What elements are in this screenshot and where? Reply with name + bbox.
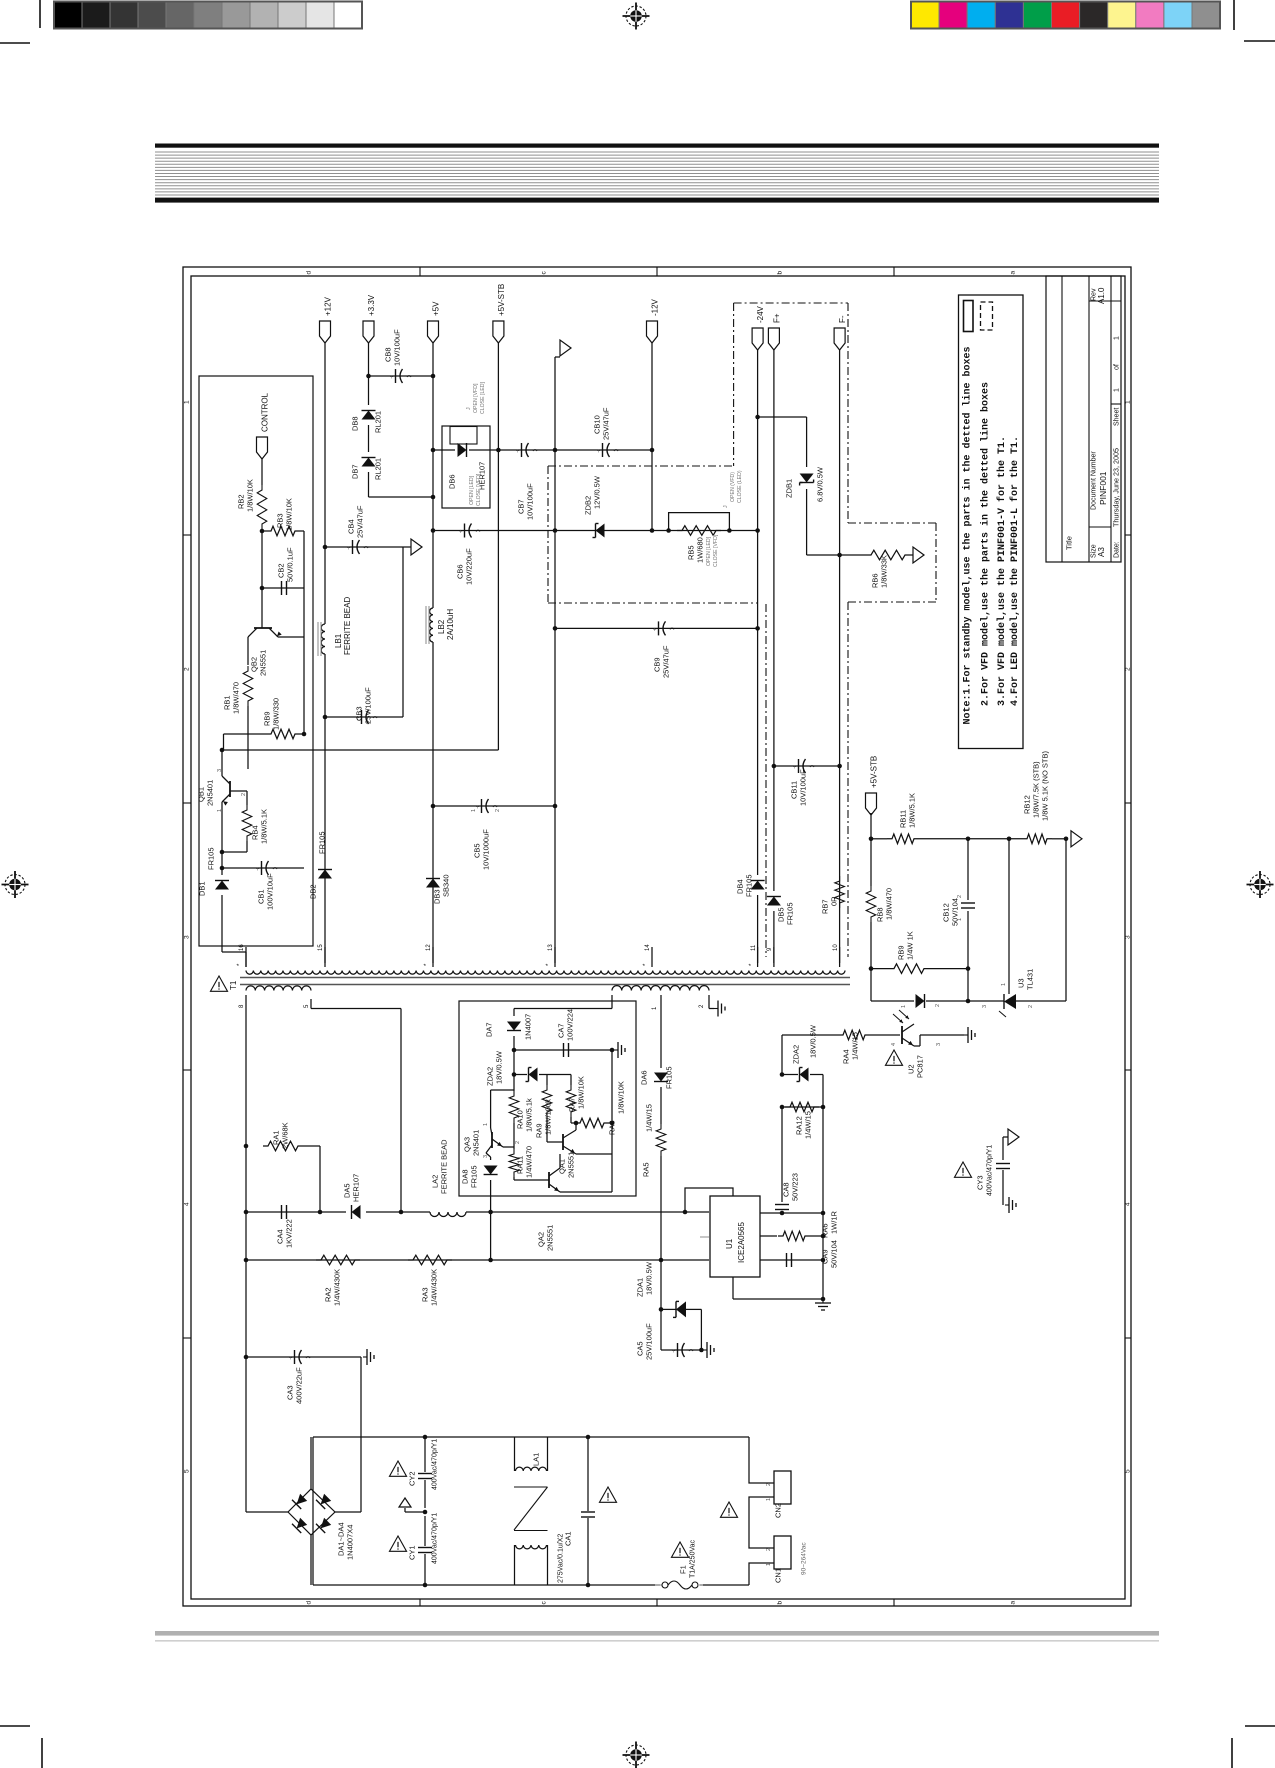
- svg-text:2: 2: [766, 1548, 772, 1551]
- svg-text:F-: F-: [838, 315, 847, 323]
- svg-text:RA7: RA7: [568, 1097, 577, 1112]
- svg-text:+: +: [597, 449, 601, 455]
- zener ZDB2 12V/0.5W: [596, 524, 605, 538]
- svg-text:ZDB1: ZDB1: [785, 479, 794, 498]
- resistor RB11 1/8W/5.1K: [874, 838, 887, 840]
- svg-text:ZDA2: ZDA2: [792, 1045, 801, 1064]
- svg-text:25V/47uF: 25V/47uF: [662, 645, 671, 678]
- capacitor CB2 50V/0.1uF: [262, 587, 304, 589]
- svg-text:1: 1: [471, 809, 477, 812]
- capacitor CB1 100V/10uF: [222, 867, 304, 869]
- svg-text:100V/224: 100V/224: [566, 1009, 575, 1041]
- diode DB3 SB340: [426, 879, 440, 888]
- fuse F1 T1A/250Vac: [655, 1584, 662, 1586]
- svg-text:1/8W/330: 1/8W/330: [272, 698, 281, 730]
- wire +3.3V rail: [368, 343, 370, 405]
- svg-text:+: +: [672, 1349, 676, 1355]
- svg-text:10V/1000uF: 10V/1000uF: [482, 829, 491, 870]
- wire DA7 loop: [513, 1009, 515, 1017]
- svg-text:1/8W/10K: 1/8W/10K: [246, 479, 255, 512]
- svg-text:CB6: CB6: [456, 564, 465, 579]
- wire CB9 bus y=628.4: [555, 627, 758, 629]
- svg-text:+3.3V: +3.3V: [367, 294, 376, 316]
- svg-text:+: +: [347, 546, 351, 552]
- svg-text:ZDA2: ZDA2: [486, 1067, 495, 1086]
- svg-text:T1: T1: [229, 980, 238, 990]
- resistor RB4 1/8W/5.1K: [246, 791, 248, 805]
- svg-text:2: 2: [183, 667, 190, 671]
- svg-text:2: 2: [241, 793, 247, 796]
- svg-text:ZDB2: ZDB2: [584, 496, 593, 515]
- wire +5V rail: [432, 343, 434, 608]
- svg-text:CY1: CY1: [408, 1545, 417, 1560]
- svg-text:+: +: [289, 1356, 293, 1362]
- svg-text:1/8W/10K: 1/8W/10K: [617, 1081, 626, 1114]
- svg-text:FERRITE BEAD: FERRITE BEAD: [440, 1139, 449, 1194]
- svg-text:CB5: CB5: [473, 843, 482, 858]
- output flag -24V: [752, 328, 763, 350]
- svg-text:1/4W/15: 1/4W/15: [851, 1032, 860, 1060]
- svg-text:3.For VFD model,use the PINF0: 3.For VFD model,use the PINF001-V for th…: [996, 436, 1008, 706]
- svg-text:A3: A3: [1097, 547, 1106, 557]
- svg-text:1: 1: [766, 1563, 772, 1566]
- svg-text:QA1: QA1: [558, 1159, 567, 1174]
- notes box: [959, 295, 1024, 749]
- diode DA8 FR105: [490, 1157, 492, 1160]
- resistor RA8 1/8W/10K: [571, 1122, 574, 1124]
- svg-text:RB2: RB2: [237, 494, 246, 509]
- svg-text:ZDA1: ZDA1: [636, 1278, 645, 1297]
- svg-text:QA2: QA2: [537, 1232, 546, 1247]
- svg-text:10V/100uF: 10V/100uF: [799, 769, 808, 806]
- svg-text:3: 3: [936, 1043, 942, 1046]
- svg-text:1/8W/33K: 1/8W/33K: [880, 555, 889, 588]
- svg-text:1: 1: [1001, 983, 1007, 986]
- svg-text:DA5: DA5: [343, 1183, 352, 1198]
- capacitor CB12 50V/104: [967, 839, 969, 900]
- svg-text:1/8W/7.5K (STB): 1/8W/7.5K (STB): [1032, 761, 1041, 818]
- output flag +5V-STB: [493, 321, 504, 343]
- svg-text:3: 3: [483, 1155, 489, 1158]
- inductor LB2 2A/10uH: [430, 608, 433, 642]
- svg-text:RB3: RB3: [276, 513, 285, 528]
- capacitor CB5 10V/1000uF: [433, 805, 555, 807]
- svg-text:LB1: LB1: [334, 633, 343, 648]
- wire -12V rail: [651, 343, 653, 531]
- EMI box edge: [312, 1437, 314, 1585]
- svg-text:b: b: [776, 1601, 783, 1605]
- wire AC top bus / box tops y=1437: [313, 1436, 749, 1438]
- svg-text:5: 5: [1124, 1469, 1131, 1473]
- resistor RA5 1/4W/15: [656, 1124, 666, 1156]
- svg-text:U1: U1: [725, 1238, 734, 1249]
- svg-text:RB9: RB9: [263, 711, 272, 726]
- svg-text:1W/680: 1W/680: [696, 537, 705, 563]
- svg-text:CLOSE [LED]: CLOSE [LED]: [480, 381, 486, 414]
- svg-text:2: 2: [515, 1141, 521, 1144]
- transistor QA2 2N5551: [514, 1179, 549, 1181]
- svg-text:25V/100uF: 25V/100uF: [364, 687, 373, 724]
- wire AC bottom bus y=1585: [313, 1584, 660, 1586]
- svg-text:2: 2: [1028, 1005, 1034, 1008]
- optocoupler U2 PC817 phototransistor: [901, 1026, 903, 1044]
- inductor LA2 FERRITE BEAD: [430, 1212, 466, 1217]
- svg-text:RA2: RA2: [324, 1287, 333, 1302]
- svg-text:RA6: RA6: [821, 1223, 830, 1238]
- svg-text:RA3: RA3: [421, 1287, 430, 1302]
- svg-text:10V/220uF: 10V/220uF: [465, 548, 474, 585]
- resistor RB1 1/8W/470: [243, 666, 253, 706]
- svg-text:RB9: RB9: [897, 945, 906, 960]
- registration marks: [623, 3, 650, 30]
- svg-text:2N5551: 2N5551: [546, 1225, 555, 1251]
- svg-text:2: 2: [766, 1483, 772, 1486]
- svg-text:RB12: RB12: [1023, 795, 1032, 814]
- transistor QB1 2N5401: [221, 750, 223, 776]
- inductor LB1 FERRITE BEAD: [321, 624, 325, 654]
- svg-text:1/8W/100k: 1/8W/100k: [544, 1099, 553, 1135]
- svg-text:3: 3: [183, 935, 190, 939]
- svg-text:CA7: CA7: [557, 1023, 566, 1038]
- wire feedback bus y=1260: [246, 1259, 709, 1261]
- svg-text:+5V-STB: +5V-STB: [869, 756, 878, 788]
- capacitor CB6 10V/220uF: [464, 524, 466, 538]
- svg-text:+5V-STB: +5V-STB: [497, 284, 506, 316]
- wire control feed (y=750): [222, 749, 498, 751]
- svg-text:J: J: [466, 407, 472, 410]
- svg-text:J: J: [723, 505, 729, 508]
- svg-text:Thursday, June 23, 2005: Thursday, June 23, 2005: [1112, 448, 1121, 527]
- svg-text:1: 1: [483, 1123, 489, 1126]
- svg-text:of: of: [1114, 364, 1121, 370]
- svg-text:+12V: +12V: [323, 296, 332, 316]
- svg-text:1/8W/10K: 1/8W/10K: [285, 498, 294, 531]
- zener ZDB1 6.8V/0.5W branch: [758, 416, 807, 418]
- svg-text:U3: U3: [1017, 978, 1026, 988]
- svg-text:DB5: DB5: [777, 907, 786, 922]
- diode DB7 RL201: [362, 458, 376, 467]
- svg-text:1: 1: [1114, 388, 1121, 392]
- diode DB5 FR105: [767, 897, 781, 906]
- svg-text:TL431: TL431: [1026, 969, 1035, 990]
- svg-text:100V/10uF: 100V/10uF: [266, 873, 275, 910]
- diode DB2 FR105: [318, 870, 332, 879]
- svg-text:DB7: DB7: [351, 464, 360, 479]
- svg-text:LB2: LB2: [437, 619, 446, 634]
- svg-text:b: b: [776, 271, 783, 275]
- svg-text:1/8W/470: 1/8W/470: [232, 682, 241, 714]
- svg-text:400Vac/470p/Y1: 400Vac/470p/Y1: [432, 1439, 439, 1490]
- svg-text:1/4W/430K: 1/4W/430K: [430, 1269, 439, 1306]
- capacitor CB4 25V/47uF + off-page arrow: [325, 546, 403, 548]
- svg-text:CB4: CB4: [347, 519, 356, 534]
- svg-text:d: d: [305, 271, 312, 275]
- svg-text:CB12: CB12: [942, 903, 951, 922]
- T1 core: [240, 977, 850, 979]
- svg-text:-12V: -12V: [650, 298, 659, 316]
- capacitor CA7 100V/224: [514, 1049, 612, 1051]
- wire DB6 to -12V (y=450): [490, 449, 652, 451]
- svg-text:Sheet: Sheet: [1114, 408, 1121, 426]
- svg-text:DB6: DB6: [448, 474, 457, 489]
- svg-text:25V/47uF: 25V/47uF: [356, 505, 365, 538]
- svg-text:RB5: RB5: [687, 545, 696, 560]
- dash-dot standby box: [734, 302, 848, 304]
- resistor RB12: [1022, 834, 1052, 844]
- earth flag (CY junction): [405, 1511, 425, 1513]
- svg-text:CA5: CA5: [636, 1341, 645, 1356]
- svg-text:1: 1: [766, 1498, 772, 1501]
- svg-text:DA6: DA6: [640, 1070, 649, 1085]
- svg-text:ICE2A0565: ICE2A0565: [737, 1222, 746, 1263]
- svg-text:1: 1: [217, 809, 223, 812]
- svg-text:Document Number: Document Number: [1091, 451, 1098, 510]
- svg-text:RB8: RB8: [876, 907, 885, 922]
- svg-text:3: 3: [217, 769, 223, 772]
- capacitor CY1 400Vac/470p/Y1: [424, 1516, 426, 1546]
- svg-text:2: 2: [957, 895, 963, 898]
- svg-text:CB1: CB1: [257, 889, 266, 904]
- svg-text:OPEN [LED]: OPEN [LED]: [469, 475, 475, 505]
- svg-text:a: a: [1009, 1601, 1016, 1605]
- svg-text:2N5401: 2N5401: [206, 780, 215, 806]
- output flag +3.3V: [363, 321, 374, 343]
- svg-text:RA12: RA12: [795, 1116, 804, 1135]
- ground (CA7): [614, 1049, 618, 1051]
- zener ZDA2 18V/0.5W (clamp): [781, 1035, 783, 1075]
- svg-text:25V/100uF: 25V/100uF: [645, 1323, 654, 1360]
- svg-text:1/8W/5.1K: 1/8W/5.1K: [260, 809, 269, 844]
- svg-text:PC817: PC817: [916, 1055, 925, 1078]
- svg-text:DA1~DA4: DA1~DA4: [337, 1522, 346, 1556]
- T1 primary winding 1-2: [612, 986, 709, 991]
- svg-text:RB4: RB4: [251, 825, 260, 840]
- svg-text:CONTROL: CONTROL: [260, 392, 269, 432]
- svg-text:50V/223: 50V/223: [791, 1173, 800, 1201]
- svg-text:RA10: RA10: [516, 1110, 525, 1129]
- svg-text:+: +: [793, 765, 797, 771]
- svg-text:4: 4: [1124, 1202, 1131, 1206]
- svg-text:12: 12: [426, 944, 432, 951]
- svg-text:1/4W/470: 1/4W/470: [525, 1146, 534, 1178]
- wire QA3 collector: [491, 1089, 514, 1091]
- svg-text:18V/0.5W: 18V/0.5W: [495, 1050, 504, 1084]
- T1 label + warning: [210, 976, 227, 991]
- svg-text:T1A/250Vac: T1A/250Vac: [690, 1539, 697, 1578]
- optocoupler U2 LED: [871, 1000, 914, 1002]
- resistor RA12 1/4W/15: [782, 1106, 823, 1108]
- svg-text:10V/100uF: 10V/100uF: [526, 483, 535, 520]
- svg-text:2N5551: 2N5551: [259, 650, 268, 676]
- svg-text:400Vac/470p/Y1: 400Vac/470p/Y1: [987, 1145, 994, 1196]
- svg-text:400V/22uF: 400V/22uF: [295, 1367, 304, 1404]
- resistor RA1 2W/68K: [263, 1141, 303, 1151]
- output flag -12V: [647, 321, 658, 343]
- diode DA5 HER107: [352, 1205, 361, 1219]
- connector CN2: [774, 1471, 791, 1504]
- svg-text:CY3: CY3: [976, 1175, 985, 1190]
- resistor RB7 0R: [835, 876, 845, 908]
- wire snubber bus y=1212: [246, 1211, 346, 1213]
- svg-text:LA2: LA2: [431, 1175, 440, 1188]
- capacitor CB8 10V/100uF: [369, 375, 434, 377]
- svg-text:HER107: HER107: [352, 1174, 361, 1202]
- T1 pin stubs secondary: [245, 947, 247, 967]
- svg-text:d: d: [305, 1601, 312, 1605]
- capacitor CA8 50V/223: [781, 1107, 783, 1202]
- svg-text:OPEN (VFD): OPEN (VFD): [730, 472, 736, 502]
- dash-dot RB6 box: [848, 522, 936, 524]
- svg-text:CN1: CN1: [774, 1568, 783, 1583]
- svg-text:CA8: CA8: [782, 1182, 791, 1197]
- svg-text:F+: F+: [772, 313, 781, 323]
- svg-text:4: 4: [891, 1043, 897, 1046]
- svg-text:2W/68K: 2W/68K: [281, 1122, 290, 1149]
- diode DA6 FR105 center-tap: [654, 1073, 668, 1082]
- svg-text:FR105: FR105: [786, 902, 795, 925]
- svg-text:DA7: DA7: [485, 1022, 494, 1037]
- svg-text:1/8W/10K: 1/8W/10K: [577, 1076, 586, 1109]
- capacitor CB3 25V/100uF: [325, 716, 403, 718]
- svg-text:+5V: +5V: [431, 301, 440, 316]
- svg-text:14: 14: [645, 944, 651, 951]
- capacitor CB9 25V/47uF: [658, 621, 660, 635]
- striped header band: [155, 144, 1159, 148]
- svg-text:16: 16: [239, 944, 245, 951]
- title block: [1046, 276, 1121, 562]
- svg-text:2A/10uH: 2A/10uH: [446, 609, 455, 640]
- wire control node: [261, 459, 263, 485]
- svg-text:A1.0: A1.0: [1097, 287, 1106, 304]
- svg-text:CB7: CB7: [517, 499, 526, 514]
- bottom gray band: [155, 1631, 1159, 1636]
- resistor RB9 1/8W/330: [224, 733, 267, 735]
- capacitor CB11 10V/100uF: [774, 765, 840, 767]
- svg-text:6.8V/0.5W: 6.8V/0.5W: [816, 466, 825, 502]
- svg-text:DB8: DB8: [351, 416, 360, 431]
- output flag +12V: [320, 321, 331, 343]
- svg-text:CB8: CB8: [384, 347, 393, 362]
- wire primary HV rail x=246: [245, 1012, 247, 1512]
- svg-text:3: 3: [982, 1005, 988, 1008]
- svg-text:DB3: DB3: [433, 889, 442, 904]
- T1 primary winding 8-5: [246, 986, 311, 991]
- svg-text:1/8W/470: 1/8W/470: [885, 888, 894, 920]
- capacitor CB7 10V/100uF: [521, 443, 523, 457]
- T1 pin stubs primary: [245, 995, 247, 1012]
- svg-text:RA5: RA5: [642, 1162, 651, 1177]
- wire F- rail: [839, 350, 841, 963]
- diode DB8 RL201: [362, 411, 376, 420]
- svg-text:10V/100uF: 10V/100uF: [393, 329, 402, 366]
- capacitor CA1 275Vac/0.1u/X2: [587, 1437, 589, 1511]
- wire -24V rail: [757, 350, 759, 875]
- svg-text:5: 5: [183, 1469, 190, 1473]
- svg-text:12V/0.5W: 12V/0.5W: [593, 475, 602, 509]
- svg-text:CB2: CB2: [277, 563, 286, 578]
- svg-text:CA1: CA1: [564, 1531, 573, 1546]
- svg-text:1/4W 1K: 1/4W 1K: [906, 931, 915, 960]
- flag +5V-STB (standby output): [866, 793, 877, 815]
- svg-text:CA9: CA9: [821, 1249, 830, 1264]
- wire y=530.5 bus: [433, 530, 758, 532]
- svg-text:25V/47uF: 25V/47uF: [602, 407, 611, 440]
- wire x=555 rail (pin13) with off-page arrow: [554, 357, 556, 450]
- svg-text:Title: Title: [1065, 536, 1074, 550]
- svg-text:1: 1: [183, 400, 190, 404]
- svg-text:275Vac/0.1u/X2: 275Vac/0.1u/X2: [558, 1534, 565, 1583]
- svg-text:10: 10: [833, 944, 839, 951]
- svg-text:1KV/222: 1KV/222: [285, 1219, 294, 1248]
- svg-text:FR105: FR105: [665, 1066, 674, 1089]
- svg-text:1: 1: [1114, 336, 1121, 340]
- dash-dot VFD box: [548, 465, 734, 467]
- svg-text:DA8: DA8: [461, 1169, 470, 1184]
- output flag F-: [834, 328, 845, 350]
- U1 right pins: [760, 1212, 823, 1214]
- svg-text:RA9: RA9: [535, 1123, 544, 1138]
- svg-text:CB3: CB3: [355, 706, 364, 721]
- resistor RB9 1/4W 1K: [871, 968, 889, 970]
- svg-text:CB10: CB10: [593, 415, 602, 434]
- zener ZDA1 18V/0.5W: [676, 1301, 686, 1317]
- svg-text:+: +: [390, 375, 394, 381]
- resistor RA4 1/4W/15: [781, 1034, 783, 1036]
- capacitor CA3 400V/22uF: [246, 1356, 361, 1358]
- resistor RA7 1/8W/10K: [566, 1085, 576, 1117]
- svg-text:+: +: [653, 627, 657, 633]
- wire +12V rail: [324, 343, 326, 624]
- resistor RA6 1W/1R: [760, 1235, 777, 1237]
- IC U1 ICE2A0565: [710, 1196, 760, 1277]
- svg-text:RB1: RB1: [223, 695, 232, 710]
- svg-text:CLOSE [VFD]: CLOSE [VFD]: [476, 473, 482, 506]
- svg-text:1: 1: [901, 1005, 907, 1008]
- color calibration bar: [911, 2, 939, 29]
- svg-text:DB1: DB1: [198, 881, 207, 896]
- svg-text:50V/104: 50V/104: [830, 1240, 839, 1268]
- svg-text:2: 2: [935, 1004, 941, 1007]
- svg-text:RB6: RB6: [871, 573, 880, 588]
- svg-text:Date:: Date:: [1114, 541, 1121, 558]
- T1 secondary winding: [246, 971, 845, 975]
- choke LA1: [514, 1437, 516, 1471]
- output flag F+: [768, 328, 779, 350]
- svg-text:SB340: SB340: [442, 874, 451, 897]
- shunt reg U3 TL431: [968, 1000, 1004, 1002]
- bridge DA1~DA4 1N4007X4: [288, 1489, 335, 1535]
- diode DB6 HER107 with box: [433, 449, 442, 451]
- capacitor CA9 50V/104: [760, 1259, 823, 1261]
- svg-text:+: +: [516, 449, 520, 455]
- resistor RA3 1/4W/430K: [408, 1255, 452, 1265]
- svg-text:50V/0.1uF: 50V/0.1uF: [286, 547, 295, 582]
- svg-text:PINF001: PINF001: [1098, 471, 1108, 505]
- svg-text:400Vac/470p/Y1: 400Vac/470p/Y1: [432, 1513, 439, 1564]
- wire 5VSTB feedback bus y=838.8: [870, 813, 872, 839]
- svg-text:0R: 0R: [830, 896, 839, 906]
- diode DB4 FR105: [751, 881, 765, 890]
- svg-text:F1: F1: [679, 1565, 688, 1574]
- svg-text:2.For VFD model,use the parts: 2.For VFD model,use the parts in the det…: [980, 382, 992, 706]
- svg-text:13: 13: [548, 944, 554, 951]
- svg-text:1/4W/430K: 1/4W/430K: [333, 1269, 342, 1306]
- flag CONTROL: [257, 437, 268, 459]
- capacitor CB10 25V/47uF: [602, 443, 604, 457]
- svg-text:1: 1: [957, 918, 963, 921]
- svg-text:4.For LED model,use the PINF0: 4.For LED model,use the PINF001-L for th…: [1009, 436, 1021, 706]
- svg-text:1/8W/5.1K: 1/8W/5.1K: [908, 793, 917, 828]
